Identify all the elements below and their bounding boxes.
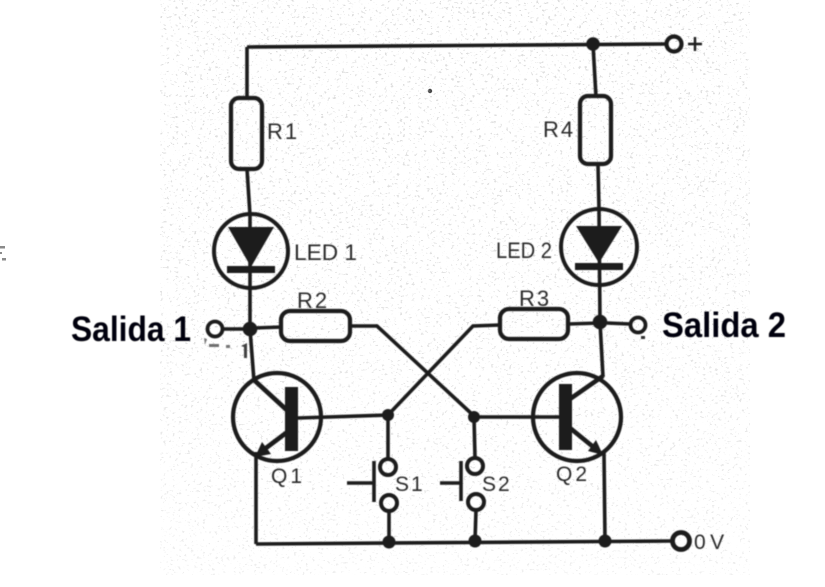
wire: R3 to LED2 node [568, 323, 600, 324]
Q1 emitter line [262, 430, 290, 451]
wire: Q2 base node down to S2 [474, 417, 475, 458]
label LED 1 [294, 240, 357, 265]
terminal: + supply [667, 37, 682, 52]
label R1 [267, 119, 299, 144]
wire: node to R2 [254, 327, 282, 328]
wire: Salida2 node to Q2 collector [600, 322, 603, 377]
wire through LED1 [248, 215, 252, 290]
switch S1 actuator stem [347, 481, 374, 485]
svg-text:Salida 2: Salida 2 [662, 306, 786, 345]
LED D2 cathode bar [575, 263, 623, 270]
resistor R4 [580, 96, 611, 164]
LED D1 circle [214, 214, 288, 288]
switch S1 actuator bar [372, 461, 376, 502]
switch S1 bottom contact [381, 495, 397, 511]
node: Q2 emitter rail junction [599, 535, 612, 548]
svg-text:R2: R2 [297, 288, 329, 313]
terminal: Salida 2 [631, 318, 646, 333]
label: + sign [688, 37, 702, 51]
LED D2 circle [561, 209, 637, 285]
terminal: Salida 1 [208, 322, 223, 337]
switch S2 bottom contact [468, 494, 484, 510]
wire through LED2 [599, 210, 600, 322]
svg-text:0V: 0V [694, 531, 729, 554]
Q2 base bar [559, 384, 572, 450]
wire: top node down to R4 [593, 44, 596, 97]
wire: terminal to node [223, 327, 246, 331]
switch S1 top contact [380, 459, 396, 475]
svg-text:R4: R4 [543, 117, 575, 142]
wire: bottom ground rail [256, 541, 672, 544]
faint erased label remnants [204, 338, 247, 358]
wire: R3 left to Q1 base (diagonal) [388, 325, 500, 415]
label S1 [395, 473, 425, 496]
wire: R2 to Q2 base (diagonal) [350, 326, 474, 416]
transistor Q1 circle [233, 373, 321, 461]
Q2 emitter line [570, 428, 597, 450]
label S2 [482, 473, 512, 496]
svg-text:Salida 1: Salida 1 [71, 310, 191, 349]
svg-text:S2: S2 [482, 473, 512, 496]
label R2 [297, 288, 329, 313]
wire: Q1 emitter down to rail [254, 452, 258, 544]
wire: S2 to rail [475, 510, 476, 541]
label Q2 [556, 463, 590, 486]
wire: top rail down to R1 [245, 47, 249, 99]
resistor R3 [500, 309, 568, 339]
node: Q2 base junction [468, 411, 480, 423]
wire: Q2 emitter down to rail [604, 453, 605, 541]
Q1 emitter arrowhead [255, 442, 271, 457]
stray scan marks at left edge [0, 246, 6, 261]
svg-text:R3: R3 [519, 286, 551, 311]
switch S2 actuator stem [440, 481, 461, 485]
wire: top supply rail [247, 44, 666, 47]
node: Salida 2 junction [593, 315, 608, 330]
svg-text:LED 2: LED 2 [496, 238, 552, 263]
LED D1 triangle [228, 227, 274, 267]
svg-text:S1: S1 [395, 473, 425, 496]
wire: node to Salida 2 terminal [607, 323, 630, 324]
label Q1 [271, 465, 305, 488]
label 0 V [694, 531, 729, 554]
label R3 [519, 286, 551, 311]
terminal: 0V [673, 533, 690, 550]
svg-text:Q2: Q2 [556, 463, 590, 486]
node: Q1 base junction [382, 409, 394, 421]
transistor Q2 circle [533, 373, 621, 461]
LED D1 cathode bar [227, 266, 275, 273]
Q2 collector line [570, 376, 603, 399]
wire: S1 to rail [387, 511, 391, 542]
label LED 2 [496, 238, 552, 263]
label Salida 2 [662, 306, 786, 345]
node: top rail / R4 junction [586, 37, 600, 51]
stray speck near top center [428, 89, 432, 93]
Q1 base wire to node [298, 415, 388, 418]
resistor R1 [231, 98, 262, 169]
switch S2 top contact [467, 458, 483, 474]
switch S2 actuator bar [459, 461, 463, 501]
node: Salida 1 junction [243, 322, 258, 337]
node: S2 rail junction [469, 535, 482, 548]
svg-text:Q1: Q1 [271, 465, 305, 488]
wire: R1 to LED1 [247, 169, 250, 215]
wire: R4 to LED2 [598, 164, 599, 210]
svg-text:R1: R1 [267, 119, 299, 144]
wire: LED1 to Salida 1 node [248, 290, 252, 329]
label Salida 1 [71, 310, 191, 349]
small scan mark under terminal [641, 336, 645, 339]
wire: node to Q1 collector [250, 329, 254, 381]
svg-text:LED 1: LED 1 [294, 240, 357, 265]
Q2 base wire to node [474, 415, 559, 419]
label R4 [543, 117, 575, 142]
Q1 collector line [254, 380, 290, 413]
Q1 base bar [285, 387, 298, 451]
resistor R2 [281, 311, 350, 341]
LED D2 triangle [576, 226, 622, 263]
wire: Q1 base node down to S1 [386, 415, 390, 459]
scanned paper speckle texture [160, 0, 750, 575]
node: S1 rail junction [383, 536, 396, 549]
Q2 emitter arrowhead [588, 440, 603, 455]
